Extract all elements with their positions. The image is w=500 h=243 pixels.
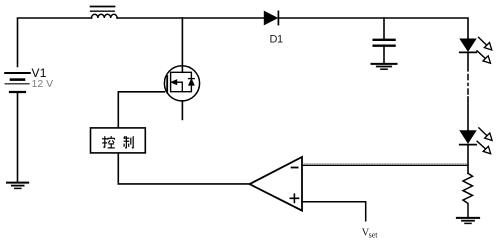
LED D3 light arrows xyxy=(477,128,492,154)
op-amp U1 xyxy=(250,157,302,211)
label 控 (drawn strokes) xyxy=(102,136,115,148)
wire top rail right segment (diode to top-right corner) xyxy=(279,18,468,39)
wire op-amp output to control box xyxy=(118,153,249,184)
inductor L1 coil xyxy=(92,14,118,18)
wire MOSFET source stub xyxy=(181,101,183,120)
wire feedback to op-amp minus input xyxy=(302,164,468,166)
LED D2 xyxy=(460,39,476,52)
wire drain drop from top rail xyxy=(181,18,183,72)
svg-text:D1: D1 xyxy=(270,34,284,46)
wire battery negative lead xyxy=(17,92,19,182)
ground resistor xyxy=(457,218,479,224)
diode D1 xyxy=(264,11,278,24)
LED D2 light arrows xyxy=(477,37,492,63)
svg-text:set: set xyxy=(369,231,379,240)
LED D3 xyxy=(460,131,476,145)
inductor core solid line xyxy=(91,6,115,8)
capacitor C1 xyxy=(374,18,395,63)
wire top rail left segment (battery to inductor) xyxy=(18,18,92,67)
wire LED cathode to sense node xyxy=(467,145,469,174)
resistor R1 xyxy=(463,173,473,217)
inductor core dashed line xyxy=(91,10,115,12)
transistor Q1 MOSFET xyxy=(164,66,199,101)
label 制 (drawn strokes) xyxy=(124,136,134,148)
node sense dotted overlay xyxy=(304,163,467,165)
wire top rail middle segment (inductor to diode) xyxy=(117,17,264,19)
battery V1 xyxy=(5,73,30,92)
ground capacitor xyxy=(372,64,397,69)
wire op-amp plus input to Vset xyxy=(302,202,366,221)
wire LED string with dash-dot break xyxy=(467,52,469,70)
svg-text:12 V: 12 V xyxy=(32,78,54,90)
wire gate to control box xyxy=(118,92,164,128)
control box xyxy=(91,128,146,153)
ground battery xyxy=(7,183,28,189)
